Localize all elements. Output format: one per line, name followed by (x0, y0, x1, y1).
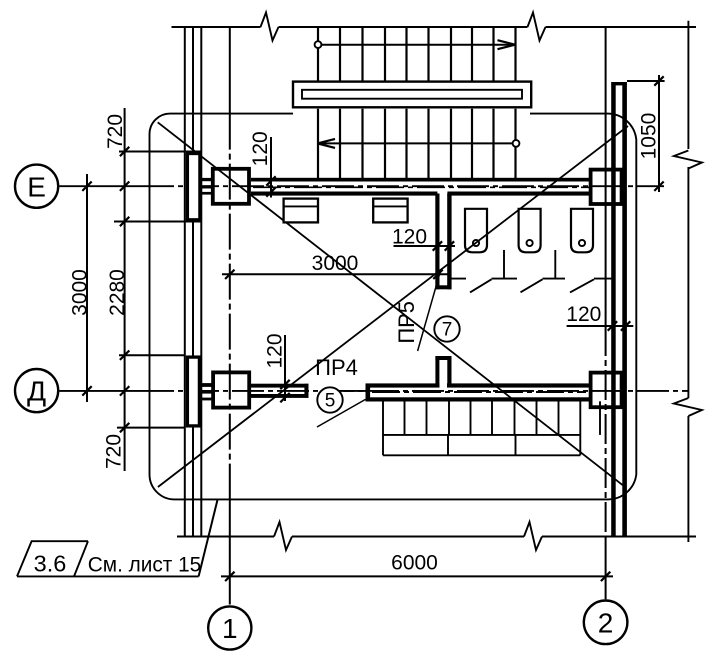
column E-1 (213, 169, 249, 204)
diagonal line D1 (158, 122, 625, 487)
wall bars between pilaster and column at E-1 (201, 178, 211, 181)
break symbol on top line right (528, 13, 546, 41)
sheet reference label box (17, 541, 199, 576)
partition PR5 bottom cap (435, 285, 451, 289)
partition PR4 left segment end cap (304, 384, 308, 398)
right building edge line middle part (687, 167, 689, 398)
axis bubble D (15, 369, 58, 412)
partition PR5 lower stub left line (435, 356, 439, 388)
washbasin 2 (373, 199, 407, 223)
right wall left thick line (611, 82, 616, 537)
svg-text:720: 720 (104, 114, 127, 149)
partition PR4 right segment end cap (366, 384, 371, 402)
leader line for door mark 5 (317, 399, 366, 427)
dimension 120 partition PR5 thickness (394, 245, 456, 247)
partition PR5 lower stub top cap (435, 356, 451, 360)
svg-text:См. лист 15: См. лист 15 (88, 554, 201, 577)
svg-text:ПР5: ПР5 (394, 301, 419, 344)
axis line D (horizontal dash-dot) (59, 390, 142, 392)
partition PR4 right segment top line (366, 383, 440, 387)
diagonal line D2 (158, 126, 628, 487)
svg-text:2280: 2280 (106, 269, 129, 316)
svg-text:3000: 3000 (312, 252, 359, 275)
left wall middle line (192, 27, 194, 537)
wall E bottom line left segment (251, 192, 437, 196)
extension line for 1050 top (627, 80, 665, 82)
break symbol on top line left (261, 13, 279, 41)
svg-text:120: 120 (392, 226, 427, 249)
svg-text:ПР4: ПР4 (315, 355, 358, 380)
dimension line 6000 bottom (221, 575, 613, 577)
svg-text:720: 720 (103, 434, 126, 469)
left wall inner face line (200, 27, 202, 537)
partition PR4 right segment bottom line (366, 397, 590, 401)
walk line upper flight (315, 41, 322, 48)
extension line pilaster E top (119, 151, 201, 153)
pilaster at E-1 (187, 154, 200, 220)
partition PR4 left segment top line (251, 384, 309, 388)
break symbol on bottom edge line left (274, 522, 292, 550)
stair treads upper flight (318, 27, 516, 82)
urinal 2 (519, 209, 541, 253)
partition PR4 center dash line (372, 391, 586, 393)
extension line pilaster E bottom (114, 221, 201, 223)
break symbol on bottom edge line right (524, 522, 542, 550)
washstand trough grid (383, 401, 600, 455)
building bottom edge line with breaks (177, 536, 274, 538)
right wall right thick line (622, 82, 627, 537)
axis line E (horizontal dash-dot) (59, 185, 142, 187)
right wall top cap (611, 82, 626, 85)
dimension line 3000 outer left (86, 174, 88, 402)
fragment boundary rounded outline (150, 114, 637, 500)
stair treads lower flight (318, 109, 516, 178)
partition PR5 lower stub right line (447, 356, 451, 388)
stair landing rail inner rect (302, 90, 522, 99)
mark circle 7 (434, 316, 459, 341)
right building edge line upper part (687, 21, 689, 149)
washbasin 1 (284, 199, 318, 223)
door mark circle 5 (317, 387, 342, 412)
svg-text:3000: 3000 (69, 269, 92, 316)
axis line 2 (vertical dash-dot) (605, 27, 607, 326)
break symbol on right edge upper (674, 151, 702, 169)
svg-text:5: 5 (325, 391, 336, 412)
left wall outer face line (184, 27, 186, 537)
dimension 1050 vertical right (658, 75, 660, 192)
column D-2 (591, 373, 622, 408)
dimension line 3000 room width (222, 273, 450, 275)
svg-text:1: 1 (222, 613, 238, 644)
leader line for partition PR5 (418, 273, 440, 351)
svg-text:Е: Е (27, 171, 46, 202)
dimension line inner left chain (124, 108, 126, 471)
svg-text:1050: 1050 (637, 113, 660, 160)
wall E top line (251, 178, 589, 182)
axis line 1 (vertical dash-dot) (229, 27, 231, 114)
wall bars between pilaster and column at D-1 (201, 383, 211, 387)
column D-1 (213, 372, 249, 407)
extension line pilaster D top (119, 354, 185, 356)
urinal divider screen lines (448, 250, 613, 292)
break symbol on right edge lower (674, 398, 702, 416)
dimension 120 right wall thickness (567, 325, 634, 327)
right building edge line lower part (687, 416, 689, 542)
walk line lower flight (513, 140, 520, 147)
stair landing rail outer rect (293, 82, 531, 108)
building top wall line with breaks (172, 26, 261, 28)
pilaster at D-1 (187, 357, 199, 426)
svg-text:120: 120 (249, 131, 272, 166)
svg-text:Д: Д (27, 376, 46, 407)
urinal 3 (571, 209, 593, 253)
axis bubble E (15, 165, 58, 208)
svg-text:3.6: 3.6 (34, 551, 67, 577)
axis bubble 1 (208, 606, 251, 649)
wall E bottom line right segment (447, 192, 589, 196)
svg-text:6000: 6000 (391, 552, 438, 575)
leader line for sheet reference label (199, 499, 218, 576)
extension line pilaster D bottom (117, 427, 184, 429)
svg-text:2: 2 (598, 607, 614, 638)
svg-text:120: 120 (264, 333, 287, 368)
svg-text:120: 120 (566, 303, 601, 326)
axis bubble 2 (584, 601, 628, 645)
partition PR5 left line (435, 194, 439, 290)
partition PR5 right line (447, 194, 451, 290)
dimension 120 wall E thickness (270, 137, 272, 198)
svg-text:7: 7 (442, 320, 453, 341)
wall E center dash-dot (253, 186, 589, 188)
urinal 1 (465, 209, 487, 253)
partition PR4 left segment bottom line (251, 394, 309, 398)
column E-2 (591, 170, 622, 204)
dimension 120 partition PR4 thickness (284, 335, 286, 401)
